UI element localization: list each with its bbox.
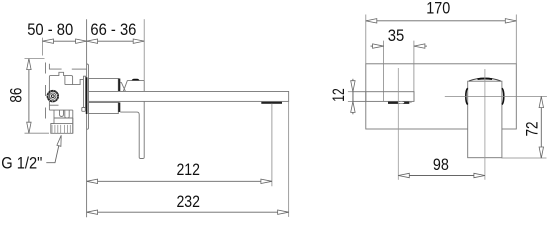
svg-text:86: 86 bbox=[8, 88, 26, 103]
svg-text:232: 232 bbox=[176, 193, 200, 211]
arrow right 170 bbox=[505, 19, 516, 23]
svg-text:170: 170 bbox=[426, 0, 450, 18]
inlet port knurled ring bbox=[48, 91, 59, 102]
cartridge cover box bbox=[89, 79, 119, 92]
arrow up 86 bbox=[27, 59, 31, 70]
valve body outline bbox=[49, 72, 83, 110]
handle dome tab bbox=[132, 79, 140, 81]
dim line 72 bbox=[540, 97, 542, 158]
arrow 72 up bbox=[539, 97, 543, 108]
arrow left 170 bbox=[366, 19, 377, 23]
arrow right 232 bbox=[278, 210, 289, 214]
svg-text:66 - 36: 66 - 36 bbox=[90, 21, 136, 39]
dim line 50-80 bbox=[43, 40, 87, 42]
arrow left 232 bbox=[87, 210, 98, 214]
aerator end step bbox=[409, 102, 411, 103]
thread shoulder line bbox=[51, 123, 73, 125]
arrow right 212 bbox=[261, 179, 272, 183]
arrow down 86 bbox=[27, 122, 31, 133]
arrow 12 bottom bbox=[351, 101, 355, 112]
dim line 212 bbox=[87, 180, 272, 182]
dim line 232 bbox=[87, 211, 289, 213]
dim 35 extension left bbox=[383, 41, 385, 102]
wall plate (front) bbox=[366, 64, 517, 129]
flange foot bbox=[82, 108, 86, 112]
arrow 35 left bbox=[373, 44, 384, 48]
body flange bbox=[84, 76, 86, 107]
spout centerline bbox=[397, 68, 399, 180]
dim 50-80 extension left bbox=[42, 38, 44, 56]
dim line 98 bbox=[398, 175, 485, 177]
dim 72 extension bottom bbox=[502, 157, 547, 159]
aerator lens highlight bbox=[398, 102, 404, 104]
arrow 72 down bbox=[539, 147, 543, 158]
body right edge to block bbox=[72, 110, 74, 133]
handle centerline bbox=[484, 69, 486, 180]
dim 170 extension right bbox=[515, 15, 517, 64]
spout (front) bbox=[353, 92, 414, 102]
dashed body-top hidden line (piece 1: corner) bbox=[49, 64, 61, 69]
inlet port inner circle bbox=[50, 93, 56, 99]
dim line 12 bbox=[352, 79, 354, 115]
arrow left of 66-36 bbox=[87, 39, 98, 43]
body interior seam vertical bbox=[64, 76, 66, 85]
wall plate front edge (side) bbox=[87, 64, 89, 129]
aerator (front) bbox=[388, 102, 409, 104]
spout (side) bbox=[89, 91, 289, 101]
dark seam upper bbox=[118, 79, 120, 92]
body bottom step bbox=[53, 110, 55, 118]
handle neck slants bbox=[120, 80, 127, 91]
inlet port center dot bbox=[51, 95, 54, 98]
svg-text:35: 35 bbox=[388, 27, 405, 45]
dim 66-36 extension right bbox=[143, 19, 145, 80]
handle (front) bbox=[468, 81, 502, 158]
svg-text:G 1/2": G 1/2" bbox=[1, 155, 42, 173]
dark seam lower bbox=[118, 102, 120, 112]
dim 170 extension left bbox=[365, 15, 367, 64]
handle cap arc bbox=[469, 78, 501, 81]
aerator (side) bbox=[261, 102, 282, 104]
dim 72 extension top bbox=[445, 95, 547, 97]
dashed body-top hidden line (piece 2) bbox=[72, 68, 87, 70]
arrow 35 right bbox=[414, 44, 425, 48]
svg-text:98: 98 bbox=[433, 156, 449, 174]
svg-text:12: 12 bbox=[330, 88, 348, 102]
handle cap dark center bbox=[478, 78, 493, 81]
svg-text:212: 212 bbox=[176, 161, 200, 179]
arrow right of 66-36 bbox=[133, 39, 144, 43]
dim 12 extension top bbox=[348, 91, 353, 93]
G 1/2 connection block bbox=[51, 118, 73, 133]
dim line 35 left tail bbox=[371, 45, 384, 47]
dim 86 extension top bbox=[25, 58, 45, 60]
G 1/2 leader bbox=[46, 138, 60, 163]
svg-text:72: 72 bbox=[523, 122, 541, 137]
body bottom edge bbox=[49, 109, 72, 111]
dim line 86 bbox=[28, 59, 30, 134]
dim 86 extension bottom bbox=[25, 132, 50, 134]
plate left edge through spout bbox=[365, 92, 367, 102]
arrow left of 50-80 bbox=[43, 39, 54, 43]
knurl nicks on ring bbox=[48, 91, 59, 102]
dim 12 extension bottom bbox=[348, 100, 353, 102]
handle top line bbox=[127, 79, 144, 81]
dim line 35 right tail bbox=[414, 45, 427, 47]
handle front edge (above spout) bbox=[143, 80, 145, 91]
arrow right of 50-80 bbox=[76, 39, 87, 43]
dim line 170 bbox=[366, 20, 517, 22]
G 1/2 leader arrow bbox=[57, 135, 61, 146]
pivot bulge left bbox=[466, 88, 468, 104]
plate back edge + extension (side) bbox=[86, 19, 88, 217]
arrow 12 top bbox=[351, 81, 355, 92]
arrow left 98 bbox=[398, 173, 409, 177]
dashed wall line bbox=[45, 63, 47, 128]
U clip under body bbox=[60, 110, 64, 116]
rounded lug under body bbox=[65, 110, 69, 118]
extension 212 (aerator) bbox=[271, 103, 273, 186]
plate dark band (side) bbox=[86, 77, 88, 114]
svg-text:50 - 80: 50 - 80 bbox=[27, 21, 73, 39]
dim line 66-36 bbox=[87, 40, 145, 42]
pivot bulge right bbox=[502, 88, 504, 104]
extension 232 (spout end) bbox=[288, 101, 290, 216]
body interior seam under port bbox=[49, 104, 58, 106]
lever collar box bbox=[89, 102, 119, 113]
arrow right 98 bbox=[474, 173, 485, 177]
thread ticks bbox=[52, 125, 70, 133]
dim 35 extension right bbox=[413, 41, 415, 102]
lever handle bbox=[120, 101, 144, 158]
arrow left 212 bbox=[87, 179, 98, 183]
